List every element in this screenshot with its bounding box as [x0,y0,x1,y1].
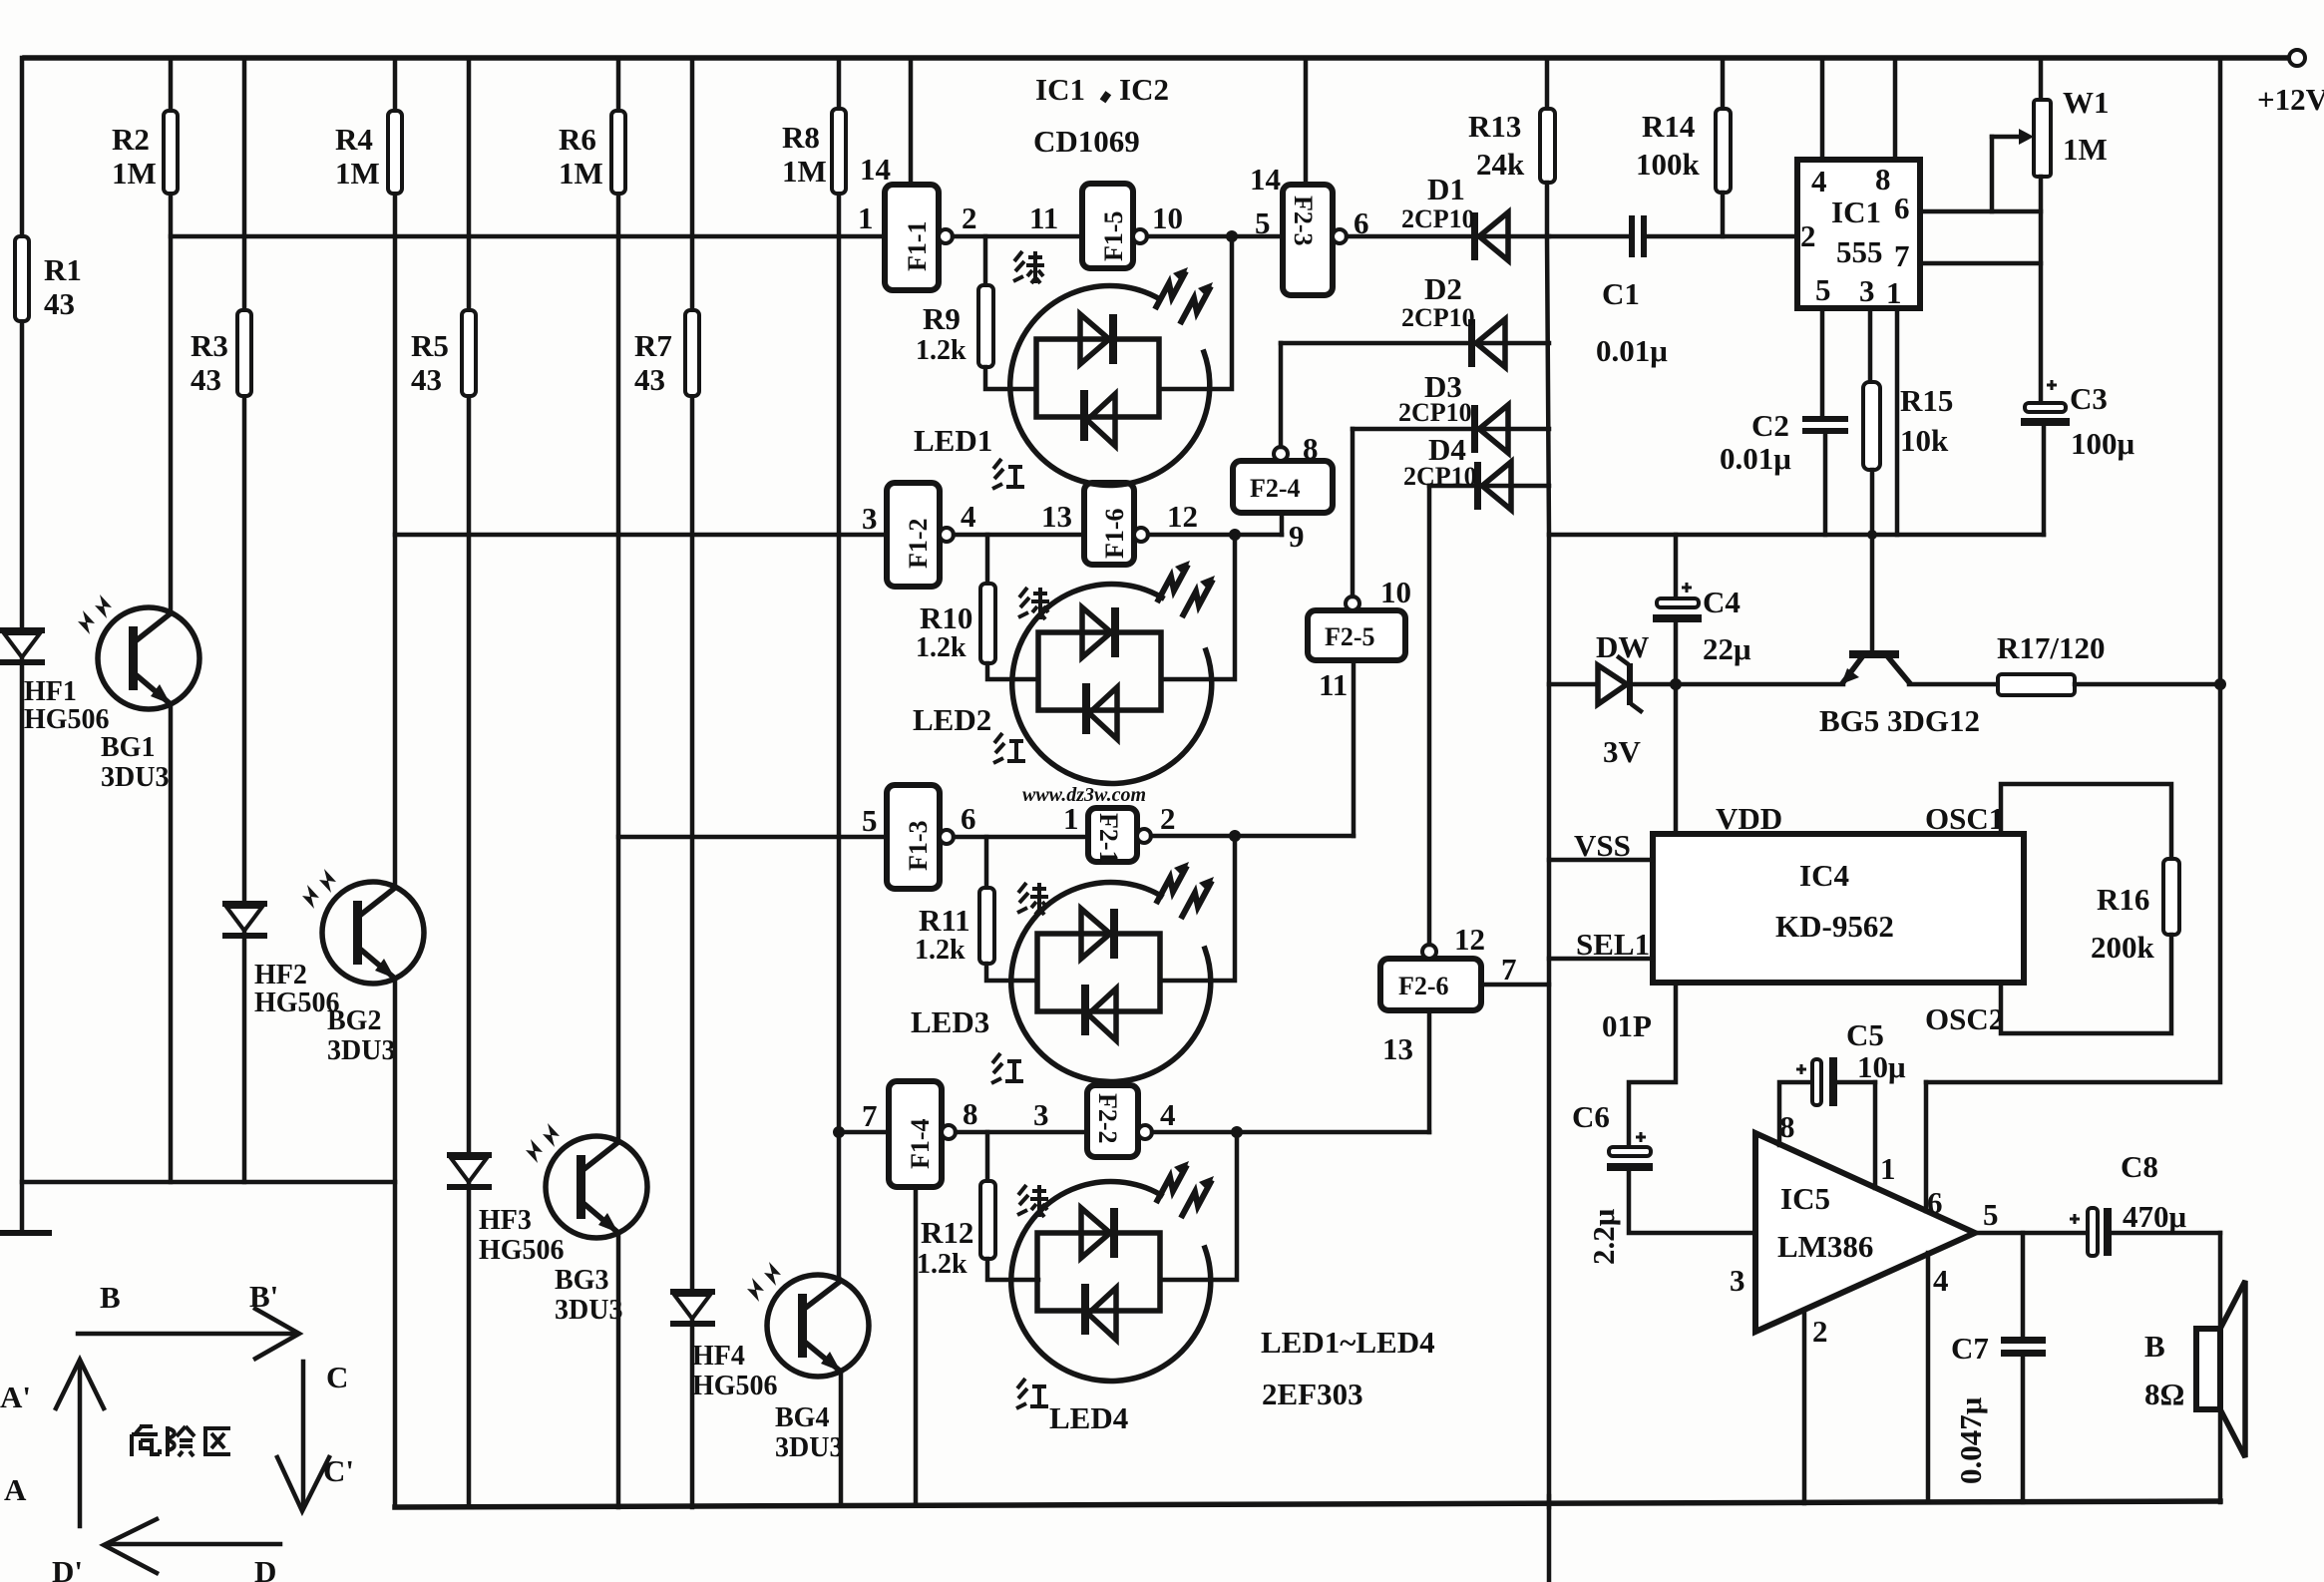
svg-text:1M: 1M [782,154,827,189]
svg-text:IC2: IC2 [1119,72,1169,107]
resistor R7 [685,310,699,396]
svg-text:1.2k: 1.2k [916,632,967,663]
label LED4 green [1017,1185,1048,1217]
wire BG3 emitter down to ground rail [616,1233,621,1507]
wire LED1 right lead riser [1159,236,1232,389]
wire bus row1 to gate F1-1 input pin 1 [171,234,885,239]
svg-text:D: D [254,1554,276,1582]
inverter F1-4 [889,1081,942,1187]
svg-text:8Ω: 8Ω [2144,1377,2184,1411]
wire bottom ground rail [395,1501,2220,1507]
svg-text:10k: 10k [1900,423,1949,458]
svg-text:2CP10: 2CP10 [1398,398,1472,427]
resistor R13 24k [1545,58,1550,109]
svg-text:2CP10: 2CP10 [1401,204,1475,233]
capacitor C5 10u electrolytic [1796,1064,1806,1074]
IC IC4 KD-9562 sound generator [1653,834,2024,983]
svg-text:IC1: IC1 [1831,195,1881,229]
inverter F2-2 [1087,1085,1138,1157]
svg-text:43: 43 [411,362,442,397]
svg-text:3DU3: 3DU3 [555,1295,622,1326]
svg-text:470μ: 470μ [2123,1199,2187,1234]
svg-text:6: 6 [1894,191,1910,225]
wire D2 row [1281,341,1549,346]
svg-text:3: 3 [1859,273,1875,308]
wire speaker drop [2218,1233,2223,1502]
svg-text:0.047μ: 0.047μ [1953,1396,1988,1484]
wire OSC2 loop from R16 [2001,935,2171,1033]
svg-text:4: 4 [1160,1097,1176,1132]
LED LED3 bi-colour 2EF303 [1011,862,1214,1081]
svg-text:1.2k: 1.2k [916,335,967,366]
wire 555 pin 8 stub [1893,58,1898,160]
svg-text:8: 8 [963,1096,978,1131]
photodiode HF3 HG506 [447,1152,492,1158]
svg-text:13: 13 [1041,499,1072,534]
svg-text:4: 4 [1811,164,1827,198]
svg-text:R11: R11 [919,903,970,938]
wire column 4: R4 to bus row2 and BG2 [393,58,398,111]
svg-text:1M: 1M [335,156,380,191]
wire 555 pin 5 stub to C2 [1820,308,1825,416]
wire F1-1 output row [953,234,1082,239]
wire bus row4 to gate F1-4 input pin 7 [839,1130,889,1135]
inverter F2-6 [1380,959,1481,1010]
svg-text:1.2k: 1.2k [915,935,966,966]
label LED2 green [1018,588,1049,619]
svg-text:10μ: 10μ [1857,1049,1906,1084]
wire F1-4 ground stub [914,1187,919,1505]
wire BG2 emitter down to ground rail [393,979,398,1507]
svg-text:7: 7 [1894,238,1910,273]
node junction bus row4 / BG4 collector [833,1126,845,1138]
svg-text:R15: R15 [1900,383,1953,418]
svg-text:10: 10 [1152,200,1183,235]
label LED3 red [991,1053,1023,1083]
wire F2-4 pin 9 stub [1280,513,1285,535]
node junction LED4 feed [1231,1126,1243,1138]
svg-text:KD-9562: KD-9562 [1775,909,1894,944]
wire column 3: R3 to HF2 [242,58,247,310]
diode D2 2CP10 [1468,319,1475,367]
wire bus row3 to gate F1-3 input pin 5 [618,835,887,840]
resistor R11 1.2k [984,837,989,888]
wire D3 row [1353,427,1549,432]
wire regulated node row from bus to BG5 [1549,682,1598,687]
svg-text:D': D' [52,1554,83,1582]
wire sensor emitter common line [22,1180,395,1185]
node beam arrow D to D' [52,1519,280,1582]
svg-text:11: 11 [1029,200,1058,235]
svg-text:C': C' [323,1453,354,1488]
svg-text:8: 8 [1779,1109,1795,1144]
svg-text:14: 14 [1250,162,1281,197]
svg-text:2: 2 [1812,1314,1828,1349]
inverter F2-4 [1233,461,1333,513]
capacitor C6 2.2u electrolytic [1636,1132,1646,1142]
svg-text:F1-4: F1-4 [906,1118,935,1169]
resistor R3 [237,310,251,396]
svg-text:BG3: BG3 [555,1265,608,1296]
wire common diode bus down the middle [1547,236,1549,1507]
wire timing node row to C3 branch [1549,533,2044,538]
svg-text:LED3: LED3 [911,1004,989,1039]
svg-text:13: 13 [1382,1031,1413,1066]
svg-text:8: 8 [1875,162,1891,197]
svg-text:0.01μ: 0.01μ [1596,333,1668,368]
transistor BG5 3DG12 [1841,650,1909,684]
resistor R8 [832,109,846,194]
svg-text:2CP10: 2CP10 [1401,303,1475,332]
svg-text:1: 1 [1063,801,1079,836]
wire 555 pin 6 row [1920,209,2041,214]
capacitor C1 0.01u [1629,215,1635,257]
svg-text:HF3: HF3 [479,1205,532,1236]
resistor R5 [462,310,476,396]
wire LM386 pin 4 stub to ground [1926,1253,1931,1502]
photodiode HF2 HG506 [222,901,267,907]
svg-text:R3: R3 [191,328,228,363]
svg-text:HG506: HG506 [692,1371,778,1401]
resistor R1 [15,236,29,321]
diode D4 2CP10 [1474,462,1481,510]
label LED4 red [1016,1379,1048,1408]
node junction R17 to +12V rail [2214,678,2226,690]
svg-text:R2: R2 [112,122,150,157]
svg-text:C3: C3 [2070,381,2108,416]
node sensor line end bar [0,1230,52,1236]
svg-text:10: 10 [1380,575,1411,609]
wire VSS stub [1549,858,1653,863]
svg-text:W1: W1 [2063,85,2110,120]
svg-text:C4: C4 [1703,585,1741,619]
label LED1 red [992,459,1024,489]
svg-text:OSC1: OSC1 [1925,801,2004,836]
svg-text:LED4: LED4 [1049,1400,1128,1435]
svg-text:F2-2: F2-2 [1093,1093,1122,1144]
svg-text:VDD: VDD [1716,801,1782,836]
op-amp IC5 LM386 audio amplifier [1755,1133,1975,1332]
svg-text:3DU3: 3DU3 [327,1035,395,1066]
svg-text:R10: R10 [920,600,972,635]
wire 555 pin 4 stub [1820,58,1825,160]
svg-text:R7: R7 [634,328,672,363]
resistor R16 200k [2163,859,2179,935]
inverter F2-1 [1088,808,1137,862]
svg-text:14: 14 [860,152,891,187]
svg-text:3DU3: 3DU3 [775,1432,843,1463]
wire LM386 output row [1975,1231,2088,1236]
svg-text:3DU3: 3DU3 [101,762,169,793]
svg-text:43: 43 [44,286,75,321]
capacitor C4 22u electrolytic [1674,535,1679,600]
svg-text:43: 43 [634,362,665,397]
svg-text:BG1: BG1 [101,732,155,763]
svg-text:6: 6 [961,801,976,836]
wire F2-4 output riser to D2 [1279,343,1284,447]
svg-text:5: 5 [1815,272,1831,307]
LED LED1 bi-colour 2EF303 [1010,267,1213,485]
svg-text:555: 555 [1836,234,1883,269]
diode D1 2CP10 [1471,212,1478,260]
node junction R15 on timing row [1867,530,1877,540]
svg-text:HF4: HF4 [692,1341,745,1372]
svg-text:2.2μ: 2.2μ [1586,1208,1621,1265]
wire SEL1 stub [1549,957,1653,962]
svg-text:1M: 1M [112,156,157,191]
svg-text:HG506: HG506 [24,704,110,735]
wire F2-1 output to F2-5 pin 11 riser [1151,834,1354,839]
wire F1-6 output to F2-4 pin 9 [1148,533,1282,538]
svg-text:LED2: LED2 [913,702,991,737]
label LED1 green [1013,251,1044,283]
svg-text:F1-1: F1-1 [903,220,932,271]
svg-text:1: 1 [1880,1151,1896,1186]
wire ground bus stub below rail [1547,1496,1552,1582]
svg-text:HG506: HG506 [479,1235,565,1266]
resistor R14 100k [1721,58,1726,109]
svg-text:BG5 3DG12: BG5 3DG12 [1819,703,1980,738]
node beam arrow A to A' [0,1360,104,1526]
capacitor C8 470u electrolytic [2070,1214,2080,1224]
svg-text:3V: 3V [1603,734,1642,769]
svg-text:IC1: IC1 [1035,72,1085,107]
wire F2-2 output to F2-6 pin 13 stub [1152,1130,1429,1135]
svg-text:24k: 24k [1476,147,1525,182]
resistor R2 [164,111,178,194]
wire W1 bottom lead to C3 [2039,177,2044,406]
resistor R17 120 [1909,682,1998,687]
svg-text:www.dz3w.com: www.dz3w.com [1022,784,1146,806]
svg-text:DW: DW [1596,629,1649,664]
wire LED3 right lead riser [1160,836,1235,981]
svg-text:A: A [4,1472,27,1507]
svg-text:4: 4 [961,499,976,534]
svg-text:LM386: LM386 [1777,1229,1873,1264]
wire F2-6 output riser to D4 [1427,486,1432,945]
svg-text:F1-5: F1-5 [1099,210,1128,261]
svg-text:D2: D2 [1424,271,1462,306]
svg-text:C2: C2 [1751,408,1789,443]
svg-text:R4: R4 [335,122,373,157]
inverter F1-3 [887,785,940,889]
inverter F1-5 [1082,184,1133,268]
svg-text:B: B [2144,1329,2165,1364]
phototransistor BG2 3DU3 [302,869,424,984]
capacitor C3 100u electrolytic [2047,380,2057,390]
svg-text:3: 3 [1730,1263,1745,1298]
phototransistor BG1 3DU3 [78,594,199,709]
node beam arrow B to B' [78,1279,299,1359]
svg-text:C7: C7 [1951,1331,1989,1366]
wire F1-4 output row [956,1130,1087,1135]
wire column 7: R7 to HF4 to ground rail [690,58,695,310]
potentiometer W1 1M [2039,58,2044,100]
svg-text:BG4: BG4 [775,1402,829,1433]
svg-text:3: 3 [1033,1097,1049,1132]
svg-text:R1: R1 [44,252,82,287]
svg-text:0.01μ: 0.01μ [1720,441,1791,476]
svg-text:D1: D1 [1427,172,1465,206]
wire LM386 pin 2 stub to ground [1802,1310,1807,1503]
resistor R9 1.2k [983,236,988,285]
wire +12V top supply rail [25,55,2289,61]
svg-text:LED1~LED4: LED1~LED4 [1261,1325,1435,1360]
svg-text:R8: R8 [782,120,820,155]
svg-text:IC4: IC4 [1799,858,1849,893]
wire D4 row [1429,484,1549,489]
svg-text:2CP10: 2CP10 [1403,462,1477,491]
svg-text:F1-3: F1-3 [904,820,933,871]
svg-text:F2-1: F2-1 [1094,813,1123,864]
svg-text:R12: R12 [921,1215,973,1250]
wire column 8: R8 to bus row4 and BG4 [837,58,842,109]
resistor R4 [388,111,402,194]
svg-text:R14: R14 [1642,109,1695,144]
svg-text:OSC2: OSC2 [1925,1001,2004,1036]
speaker B 8 ohm [2196,1329,2220,1409]
svg-text:C1: C1 [1602,276,1640,311]
wire LM386 pin 6 stub [1924,1082,1929,1211]
op-amp U IC1 555 timer [1797,160,1920,308]
svg-text:F2-4: F2-4 [1250,474,1301,503]
svg-text:2: 2 [1160,801,1176,836]
wire 555 pin 7 row [1920,261,2041,266]
capacitor C7 0.047u [2021,1233,2026,1337]
svg-text:C6: C6 [1572,1099,1610,1134]
wire LM386 pin 1 stub [1873,1082,1878,1188]
svg-text:B: B [100,1280,121,1315]
wire D1 row from F2-3 output [1347,234,1549,239]
wire F1-5 output to F2-3 input pin 5 [1147,234,1283,239]
node +12V terminal [2289,50,2305,66]
svg-text:F2-3: F2-3 [1289,196,1318,246]
LED LED2 bi-colour 2EF303 [1012,561,1215,783]
zener diode DW 3V [1598,665,1627,704]
svg-text:BG2: BG2 [327,1005,381,1036]
wire column 1: +12V to R1 to HF1 to sensor line [22,58,25,236]
svg-text:6: 6 [1927,1185,1943,1220]
svg-text:200k: 200k [2091,930,2155,965]
svg-text:2EF303: 2EF303 [1262,1377,1363,1411]
svg-text:11: 11 [1319,667,1348,702]
wire F1-2 output row [954,533,1084,538]
svg-text:C5: C5 [1846,1017,1884,1052]
svg-text:7: 7 [1501,952,1517,987]
node junction LED2 feed [1229,529,1241,541]
svg-text:43: 43 [191,362,221,397]
svg-text:4: 4 [1933,1263,1949,1298]
svg-text:C: C [326,1360,348,1394]
capacitor C2 0.01u [1802,416,1848,422]
svg-text:C8: C8 [2121,1149,2158,1184]
resistor R15 10k [1868,308,1873,382]
resistor R10 1.2k [985,535,990,584]
svg-text:7: 7 [862,1098,878,1133]
svg-text:CD1069: CD1069 [1033,124,1140,159]
svg-text:1M: 1M [559,156,603,191]
wire F2-5 pin 11 stub [1352,660,1356,836]
wire right-side +12V rail down to LM386 pin 6 [1926,58,2220,1082]
svg-text:100μ: 100μ [2071,426,2135,461]
svg-text:F2-5: F2-5 [1325,622,1375,651]
node junction LED3 feed [1229,830,1241,842]
svg-text:R17/120: R17/120 [1997,630,2106,665]
svg-text:HF1: HF1 [24,676,77,707]
wire F2-6 pin 7 output to bus [1481,983,1549,988]
inverter F2-5 [1308,610,1405,660]
svg-text:5: 5 [1255,205,1271,240]
wire F1-3 output row [954,835,1088,840]
node junction C4 / DW / VDD [1670,678,1682,690]
svg-text:2: 2 [1800,218,1816,253]
phototransistor BG3 3DU3 [526,1123,647,1238]
svg-text:01P: 01P [1602,1008,1652,1043]
svg-text:12: 12 [1454,922,1485,957]
svg-text:22μ: 22μ [1703,631,1751,666]
svg-text:B': B' [249,1279,278,1314]
LED LED4 bi-colour 2EF303 [1011,1161,1214,1381]
svg-text:A': A' [0,1380,31,1414]
svg-text:R6: R6 [559,122,596,157]
resistor R6 [611,111,625,194]
svg-text:3: 3 [862,501,878,536]
inverter F2-3 [1304,58,1309,185]
wire 555 pin 1 stub [1895,308,1900,535]
label danger zone [132,1426,160,1456]
svg-text:R13: R13 [1468,109,1521,144]
wire F2-6 pin 13 stub [1427,1010,1432,1132]
phototransistor BG4 3DU3 [747,1262,869,1377]
photodiode HF4 HG506 [670,1289,715,1295]
wire BG1 emitter to sensor line [169,704,174,1182]
node beam arrow C to C' [277,1360,354,1511]
svg-text:1.2k: 1.2k [917,1249,968,1280]
wire LED4 right lead riser [1160,1132,1237,1280]
label LED2 red [993,733,1025,763]
wire OSC1 loop to R16 [2001,784,2171,859]
svg-text:R5: R5 [411,328,449,363]
node junction LED1 feed [1226,230,1238,242]
inverter F1-6 [1084,483,1134,565]
svg-text:2: 2 [962,200,977,235]
svg-text:LED1: LED1 [914,423,992,458]
inverter F1-2 [887,483,940,587]
label LED3 green [1017,883,1048,915]
svg-text:F1-2: F1-2 [904,518,933,569]
wire LM386 pin 8 stub [1779,1082,1812,1145]
wire VDD feed into IC4 [1674,684,1679,834]
svg-text:1: 1 [858,200,874,235]
svg-text:+12V: +12V [2257,82,2324,117]
svg-text:F1-6: F1-6 [1100,508,1129,559]
wire BG4 emitter down to ground rail [839,1372,844,1504]
svg-text:8: 8 [1303,431,1319,466]
wire bus row2 to gate F1-2 input pin 3 [395,533,887,538]
svg-text:12: 12 [1167,499,1198,534]
wire column 6: R6 to bus row3 and BG3 [616,58,621,111]
wire 555 trigger row with C1 [1549,234,1630,239]
wire column 2: R2 pull-up to node A and BG1 collector [169,58,174,111]
inverter F1-1 [909,58,914,185]
svg-text:1M: 1M [2063,132,2108,167]
diode D3 2CP10 [1471,405,1478,453]
wire 01P output to C6 [1629,983,1676,1149]
svg-text:IC5: IC5 [1780,1181,1830,1216]
photodiode HF1 HG506 [0,627,45,633]
svg-text:100k: 100k [1636,147,1701,182]
wire column 5: R5 to HF3 to ground rail [467,58,472,310]
